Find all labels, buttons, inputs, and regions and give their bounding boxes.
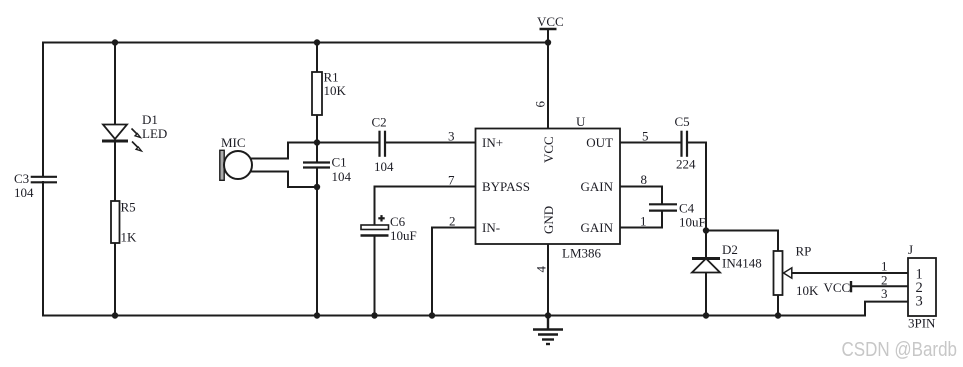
node C1 ground [314,312,320,318]
node C6 ground [371,312,377,318]
svg-text:10K: 10K [796,283,819,298]
resistor R5 [111,201,120,243]
svg-text:IN-: IN- [482,220,500,235]
microphone MIC [220,150,252,180]
wire left vertical upper (to C3) [42,43,44,177]
svg-text:R5: R5 [121,200,136,215]
svg-text:IN+: IN+ [482,135,503,150]
svg-text:MIC: MIC [221,135,246,150]
svg-text:3: 3 [881,286,888,301]
wire pin 5 OUT to C5 [620,142,682,144]
svg-text:LED: LED [142,126,167,141]
wire VCC to top rail [547,29,549,43]
node IN+ (R1/C1/MIC) [314,139,320,145]
node OUT/D2/RP [703,227,709,233]
svg-text:3: 3 [916,294,923,310]
node R5 ground [112,312,118,318]
power VCC (connector tap) [850,281,852,292]
wire R1 top branch [316,43,318,73]
svg-text:VCC: VCC [541,136,556,163]
capacitor C1 [303,163,330,168]
capacitor C4 [649,204,677,210]
svg-text:10uF: 10uF [390,228,417,243]
svg-text:IN4148: IN4148 [722,256,762,271]
svg-text:3PIN: 3PIN [908,316,936,331]
wire node to RP top [706,231,778,252]
C6 plus sign [378,215,384,221]
node VCC [545,39,551,45]
svg-text:LM386: LM386 [562,246,602,261]
svg-text:C2: C2 [372,115,387,130]
wire pin 6 [547,43,549,129]
svg-text:CSDN @Bardb: CSDN @Bardb [842,339,958,361]
wire C5 to node [687,143,706,231]
wire RP bottom to ground rail [777,295,779,316]
svg-text:5: 5 [642,129,649,144]
svg-text:104: 104 [14,185,34,200]
wire RP wiper to connector pin 1 [790,272,908,274]
svg-text:C4: C4 [679,201,695,216]
wire D1 top branch [114,43,116,126]
wire node to C1 top [316,143,318,163]
wire C1 node to ground rail [316,187,318,316]
node C1 bottom [314,184,320,190]
wire D2 to ground rail [705,273,707,316]
capacitor C3 [31,177,57,183]
svg-text:GAIN: GAIN [581,220,614,235]
ground symbol [533,316,563,345]
wire pin 2 IN- to ground rail [432,228,476,316]
svg-text:VCC: VCC [537,14,564,29]
wire pin 7 BYPASS to C6 [375,187,476,226]
svg-text:C3: C3 [14,171,29,186]
svg-text:104: 104 [374,159,394,174]
wire left vertical lower (C3 to ground rail) [42,182,44,316]
svg-text:GND: GND [541,206,556,234]
svg-text:J: J [908,242,913,257]
node R1 top [314,39,320,45]
node RP ground [775,312,781,318]
svg-text:10K: 10K [324,83,347,98]
svg-text:104: 104 [332,169,352,184]
svg-text:U: U [576,114,586,129]
diode D2 [692,259,720,273]
wire MIC bottom output [246,172,317,188]
svg-text:RP: RP [796,244,812,259]
potentiometer RP [774,251,792,295]
wire node to D2 [705,231,707,259]
svg-text:C5: C5 [675,114,690,129]
svg-text:VCC: VCC [824,280,851,295]
svg-text:10uF: 10uF [679,215,706,230]
LED D1 [102,125,142,152]
wire VCC tap to connector pin 2 [851,285,908,287]
svg-text:7: 7 [448,173,455,188]
resistor R1 [312,72,322,115]
node D1 top [112,39,118,45]
svg-text:C6: C6 [390,214,406,229]
svg-text:8: 8 [641,172,648,187]
wire pin 8 GAIN to C4 [620,187,662,204]
wire D1 to R5 [114,141,116,201]
wire top rail [43,42,548,44]
wire node to C2 [317,142,380,144]
wire MIC top output [246,143,317,159]
wire C6 to ground rail [374,236,376,316]
svg-text:BYPASS: BYPASS [482,179,530,194]
svg-text:224: 224 [676,157,696,172]
capacitor C2 [380,131,386,157]
capacitor C5 [682,131,688,157]
op-amp U LM386 [476,129,621,245]
wire C2 to pin 3 [385,142,476,144]
svg-text:D1: D1 [142,112,158,127]
connector J [908,258,936,316]
power VCC (top) [540,28,557,30]
capacitor C6 (electrolytic) [361,225,389,236]
svg-text:3: 3 [448,129,455,144]
wire C1 bottom to node [316,168,318,187]
wire R5 to ground rail [114,243,116,316]
svg-text:4: 4 [534,266,549,273]
svg-text:GAIN: GAIN [581,179,614,194]
wire C4 to pin 1 GAIN [620,211,662,228]
wire bottom ground rail [43,315,865,317]
svg-text:1: 1 [640,214,647,229]
wire pin 4 to ground rail [547,244,549,316]
svg-text:2: 2 [449,214,456,229]
wire R1 bottom to node [316,115,318,143]
wire ground rail to connector pin 3 [865,302,908,316]
svg-text:1K: 1K [121,230,138,245]
svg-text:6: 6 [533,101,548,108]
svg-text:C1: C1 [332,155,347,170]
svg-text:1: 1 [881,258,888,273]
svg-text:OUT: OUT [586,135,613,150]
node IN- ground [429,312,435,318]
node D2 ground [703,312,709,318]
node GND pin4 [545,312,551,318]
